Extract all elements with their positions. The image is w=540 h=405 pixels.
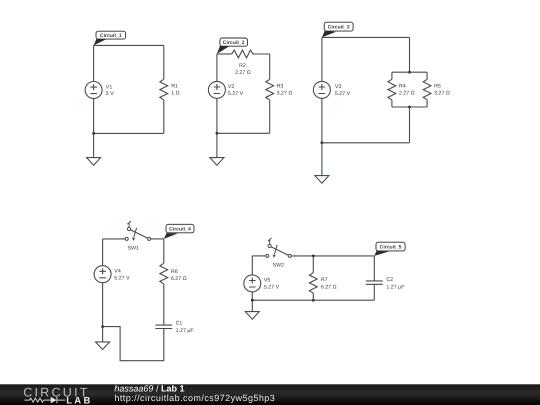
ground (Circuit_1) xyxy=(87,158,101,166)
wire feed lower (Circuit_3) xyxy=(409,107,411,143)
wire right upper (Circuit_2) xyxy=(269,54,271,79)
svg-text:SW1: SW1 xyxy=(127,245,139,251)
wire right upper (Circuit_4) xyxy=(163,239,165,263)
junction dot (Circuit_2 bottom) xyxy=(216,132,219,135)
svg-text:1.27 µF: 1.27 µF xyxy=(176,328,195,334)
capacitor C1 xyxy=(155,321,194,334)
svg-text:SW2: SW2 xyxy=(273,262,285,268)
svg-text:R6: R6 xyxy=(171,269,178,275)
svg-text:http://circuitlab.com/cs972yw5: http://circuitlab.com/cs972yw5g5hp3 xyxy=(114,393,275,403)
svg-text:1.27 µF: 1.27 µF xyxy=(386,284,405,290)
node label flag Circuit_1 xyxy=(94,39,106,46)
junction dot (parallel top) xyxy=(408,71,411,74)
junction dot (Circuit_5 bottom) xyxy=(251,299,254,302)
wire left upper (Circuit_5) xyxy=(251,256,253,275)
svg-text:5.27 V: 5.27 V xyxy=(228,91,244,97)
voltage source V1 xyxy=(85,82,114,99)
resistor R2 xyxy=(232,50,254,76)
svg-text:V1: V1 xyxy=(106,84,113,90)
CircuitLab logo schematic strip (resistor + diode) xyxy=(25,397,66,403)
wire below C1 (Circuit_4) xyxy=(103,327,164,361)
svg-text:Circuit_2: Circuit_2 xyxy=(223,40,245,46)
wire left lower (Circuit_3) xyxy=(321,98,323,142)
svg-text:5.27 V: 5.27 V xyxy=(335,91,351,97)
footer bar xyxy=(0,384,540,405)
svg-text:Circuit_3: Circuit_3 xyxy=(328,24,350,30)
svg-text:5 V: 5 V xyxy=(106,91,114,97)
wire top-left (Circuit_4) xyxy=(103,238,126,240)
wire bottom (Circuit_3) xyxy=(322,142,410,144)
svg-text:R7: R7 xyxy=(321,277,328,283)
wire left lower (Circuit_2) xyxy=(216,98,218,133)
switch SW1 xyxy=(125,221,150,251)
node label flag Circuit_2 xyxy=(217,46,229,54)
svg-text:R3: R3 xyxy=(277,83,284,89)
resistor R1 xyxy=(160,79,180,100)
wire top (Circuit_1) xyxy=(94,44,164,46)
ground (Circuit_3) xyxy=(315,176,329,184)
svg-text:3.27 Ω: 3.27 Ω xyxy=(434,91,450,97)
svg-text:2.27 Ω: 2.27 Ω xyxy=(235,70,251,76)
junction dot (R7 top) xyxy=(312,255,315,258)
wire parallel top (Circuit_3) xyxy=(392,71,427,73)
wire left lower (Circuit_1) xyxy=(93,99,95,134)
svg-text:LAB: LAB xyxy=(66,395,92,405)
switch SW2 xyxy=(266,238,291,268)
resistor R4 xyxy=(388,72,415,107)
wire below C2 (Circuit_5) xyxy=(373,284,375,300)
svg-text:V3: V3 xyxy=(335,84,342,90)
svg-text:R1: R1 xyxy=(171,83,178,89)
wire R7 upper stub (Circuit_5) xyxy=(312,256,314,273)
voltage source V4 xyxy=(94,266,130,283)
resistor R6 xyxy=(160,263,187,284)
wire switch-to-corner (Circuit_4) xyxy=(151,238,164,240)
svg-text:R5: R5 xyxy=(434,83,441,89)
wire top-left (Circuit_2) xyxy=(217,53,232,55)
wire bottom (Circuit_5) xyxy=(252,299,374,301)
wire top-right (Circuit_2) xyxy=(252,53,270,55)
svg-text:1 Ω: 1 Ω xyxy=(171,91,179,97)
voltage source V2 xyxy=(208,81,243,98)
wire ground stub (Circuit_3) xyxy=(321,143,323,176)
capacitor C2 xyxy=(366,277,405,290)
svg-text:5.27 V: 5.27 V xyxy=(264,285,280,291)
svg-text:3.27 Ω: 3.27 Ω xyxy=(277,91,293,97)
wire ground stub (Circuit_2) xyxy=(216,133,218,157)
wire left upper (Circuit_3) xyxy=(321,37,323,81)
svg-text:Circuit_4: Circuit_4 xyxy=(169,226,191,232)
wire ground stub (Circuit_5) xyxy=(251,300,253,312)
wire R6-to-C1 (Circuit_4) xyxy=(163,284,165,325)
svg-text:5.27 V: 5.27 V xyxy=(114,276,130,282)
wire top (Circuit_3) xyxy=(322,36,410,38)
wire bottom (Circuit_2) xyxy=(217,132,270,134)
wire ground stub (Circuit_4) xyxy=(102,327,104,342)
wire left lower (Circuit_5) xyxy=(251,292,253,300)
svg-text:6.27 Ω: 6.27 Ω xyxy=(321,284,337,290)
svg-text:C1: C1 xyxy=(176,321,183,327)
node label flag Circuit_5 xyxy=(374,251,389,256)
svg-text:6.27 Ω: 6.27 Ω xyxy=(171,276,187,282)
ground (Circuit_5) xyxy=(245,312,259,320)
resistor R5 xyxy=(423,72,450,107)
wire feed upper (Circuit_3) xyxy=(409,37,411,72)
wire right upper (Circuit_5) xyxy=(373,256,375,281)
svg-text:V4: V4 xyxy=(114,269,121,275)
resistor R3 xyxy=(266,79,293,100)
wire ground stub (Circuit_1) xyxy=(93,133,95,157)
junction dot (parallel bottom) xyxy=(408,106,411,109)
svg-text:V5: V5 xyxy=(264,277,271,283)
wire left upper (Circuit_1) xyxy=(93,45,95,81)
wire right lower (Circuit_1) xyxy=(163,100,165,133)
svg-text:R4: R4 xyxy=(399,83,406,89)
voltage source V5 xyxy=(244,275,280,292)
voltage source V3 xyxy=(313,81,350,98)
svg-text:2.27 Ω: 2.27 Ω xyxy=(399,91,415,97)
svg-text:V2: V2 xyxy=(228,84,235,90)
svg-text:hassaa69 / Lab 1: hassaa69 / Lab 1 xyxy=(114,384,184,394)
wire left upper (Circuit_4) xyxy=(102,239,104,266)
wire left lower (Circuit_4) xyxy=(102,283,104,327)
ground (Circuit_2) xyxy=(210,158,224,166)
svg-text:R2: R2 xyxy=(239,63,246,69)
wire bottom (Circuit_1) xyxy=(94,132,164,134)
wire switch-to-R7 (Circuit_5) xyxy=(291,255,374,257)
resistor R7 xyxy=(309,273,336,294)
wire left upper (Circuit_2) xyxy=(216,54,218,81)
wire right upper (Circuit_1) xyxy=(163,45,165,79)
wire right lower (Circuit_2) xyxy=(269,100,271,133)
ground (Circuit_4) xyxy=(96,342,110,350)
junction dot (Circuit_4 bottom) xyxy=(101,325,104,328)
wire R7 lower stub (Circuit_5) xyxy=(312,293,314,300)
junction dot (Circuit_3 bottom) xyxy=(321,141,324,144)
node label flag Circuit_4 xyxy=(164,233,178,239)
svg-text:Circuit_1: Circuit_1 xyxy=(100,33,122,39)
svg-text:Circuit_5: Circuit_5 xyxy=(380,244,402,250)
svg-text:C2: C2 xyxy=(386,277,393,283)
junction dot (Circuit_1 bottom) xyxy=(92,132,95,135)
node label flag Circuit_3 xyxy=(322,31,336,38)
wire top-left (Circuit_5) xyxy=(252,255,265,257)
junction dot (R7 bottom) xyxy=(312,299,315,302)
wire parallel bottom (Circuit_3) xyxy=(392,106,427,108)
